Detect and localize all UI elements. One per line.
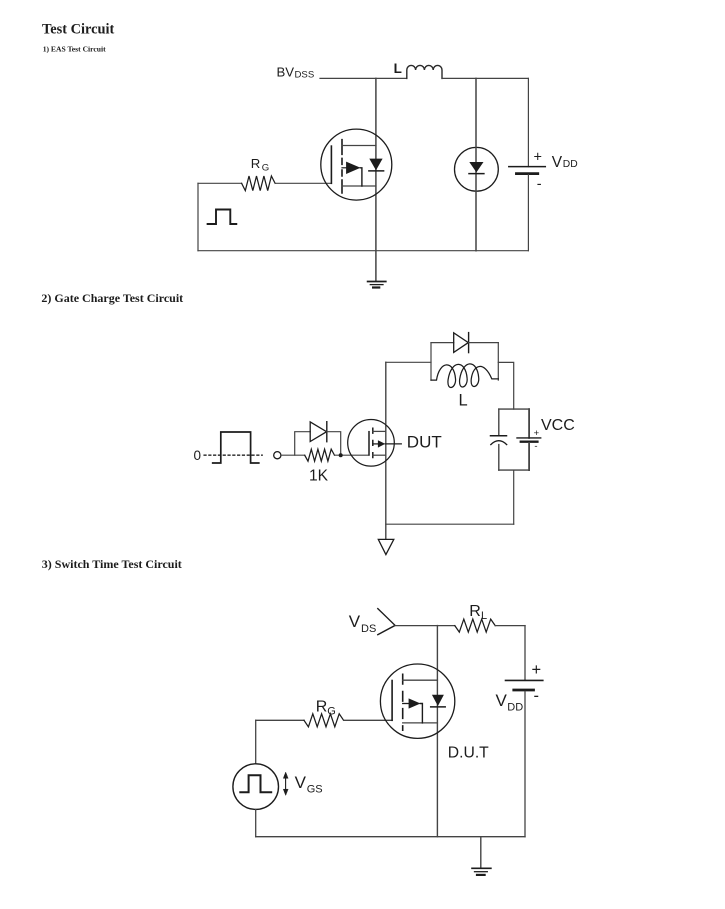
svg-text:D.U.T: D.U.T: [448, 745, 489, 762]
svg-text:L: L: [459, 392, 468, 410]
svg-text:DD: DD: [563, 159, 578, 170]
svg-text:V: V: [552, 154, 563, 171]
svg-text:R: R: [251, 156, 261, 171]
svg-text:+: +: [534, 428, 540, 439]
svg-text:BV: BV: [277, 64, 295, 79]
svg-text:-: -: [534, 687, 540, 705]
svg-text:-: -: [537, 177, 542, 193]
svg-text:1K: 1K: [309, 468, 329, 485]
svg-text:V: V: [295, 773, 307, 792]
svg-text:L: L: [481, 610, 487, 622]
svg-text:+: +: [534, 150, 542, 166]
svg-text:DSS: DSS: [295, 69, 315, 80]
svg-text:R: R: [469, 603, 481, 620]
svg-text:+: +: [532, 661, 542, 679]
svg-text:G: G: [262, 163, 269, 174]
svg-text:3) Switch Time Test Circuit: 3) Switch Time Test Circuit: [42, 557, 182, 571]
svg-text:GS: GS: [307, 783, 323, 795]
svg-text:R: R: [316, 698, 328, 715]
svg-text:V: V: [496, 691, 508, 710]
svg-text:DUT: DUT: [407, 432, 442, 451]
svg-text:V: V: [349, 612, 361, 631]
svg-text:2) Gate Charge Test Circuit: 2) Gate Charge Test Circuit: [41, 291, 183, 305]
svg-text:-: -: [534, 441, 537, 452]
svg-text:G: G: [327, 706, 336, 718]
svg-text:1) EAS Test Circuit: 1) EAS Test Circuit: [43, 45, 106, 54]
svg-text:VCC: VCC: [541, 417, 575, 434]
svg-text:0: 0: [194, 448, 202, 463]
svg-text:DS: DS: [361, 623, 376, 635]
svg-text:DD: DD: [507, 701, 523, 713]
svg-text:L: L: [394, 61, 402, 76]
svg-text:Test Circuit: Test Circuit: [42, 22, 115, 38]
